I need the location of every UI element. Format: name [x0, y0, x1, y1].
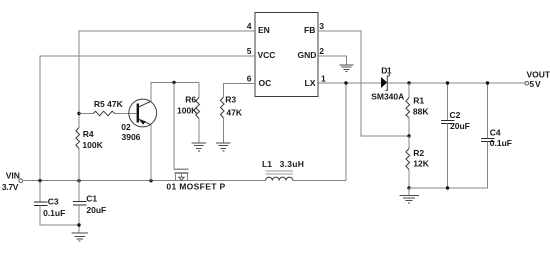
svg-text:12K: 12K	[413, 159, 429, 169]
svg-text:VIN: VIN	[6, 171, 20, 181]
svg-text:R5 47K: R5 47K	[94, 99, 124, 109]
wire LX node down to inductor rail	[345, 83, 347, 181]
wire R2 to ground	[408, 188, 410, 195]
svg-text:R1: R1	[413, 95, 424, 105]
wire Q2 collector up to gate node	[151, 83, 199, 102]
svg-text:20uF: 20uF	[450, 121, 470, 131]
svg-text:20uF: 20uF	[86, 205, 106, 215]
diode D1	[371, 65, 404, 101]
svg-text:R2: R2	[413, 148, 424, 158]
node D1/R1 junction	[407, 81, 410, 84]
node R4/R5/EN junction	[77, 112, 80, 115]
ground GND pin2	[340, 65, 354, 71]
svg-text:SM340A: SM340A	[371, 92, 404, 102]
svg-text:100K: 100K	[82, 140, 103, 150]
svg-text:0.1uF: 0.1uF	[43, 208, 65, 218]
resistor R1	[406, 83, 429, 136]
op-amp U1 regulator IC box	[255, 13, 318, 97]
capacitor C3	[34, 181, 79, 225]
node VIN terminal	[19, 179, 23, 183]
svg-text:3: 3	[319, 21, 324, 31]
svg-text:2: 2	[319, 46, 324, 56]
svg-text:GND: GND	[298, 50, 317, 60]
svg-text:0.1uF: 0.1uF	[490, 138, 512, 148]
svg-text:EN: EN	[258, 25, 270, 35]
svg-text:VCC: VCC	[258, 50, 276, 60]
svg-text:C3: C3	[48, 197, 59, 207]
node C2 top junction	[446, 81, 449, 84]
svg-text:01 MOSFET P: 01 MOSFET P	[166, 181, 225, 191]
svg-text:R6: R6	[185, 95, 196, 105]
svg-text:100K: 100K	[177, 106, 198, 116]
resistor R3	[220, 95, 242, 143]
svg-text:C2: C2	[450, 110, 461, 120]
inductor L1	[262, 159, 304, 180]
wire R2 bottom to C2/C4 bottoms	[409, 187, 488, 189]
svg-text:L1: L1	[262, 159, 272, 169]
node C2 bottom junction	[446, 186, 449, 189]
resistor R4	[76, 114, 104, 182]
svg-text:LX: LX	[305, 78, 316, 88]
svg-text:3.7V: 3.7V	[2, 182, 19, 192]
svg-text:1: 1	[321, 73, 326, 83]
node R1/R2/FB junction	[407, 134, 410, 137]
svg-text:02: 02	[121, 122, 131, 132]
ground R3	[216, 143, 231, 151]
wire VCC pin5 to VIN rail	[40, 56, 255, 181]
capacitor C4	[481, 83, 512, 188]
svg-text:6: 6	[247, 73, 252, 83]
svg-text:C1: C1	[86, 194, 97, 204]
transistor Q2	[121, 99, 156, 142]
svg-text:VOUT: VOUT	[527, 69, 550, 79]
wire OC pin6 to R3 top	[224, 84, 256, 98]
node VCC/C3 junction	[38, 179, 41, 182]
capacitor C2	[441, 83, 470, 188]
svg-text:4: 4	[247, 21, 252, 31]
wire GND pin2 to ground	[318, 56, 347, 65]
ground R6	[192, 143, 207, 151]
node Q2 emitter junction	[149, 179, 152, 182]
wire LX pin1 output rail	[318, 82, 381, 84]
node VOUT terminal	[525, 82, 529, 86]
wire EN pin4 to R4/R5 node	[79, 31, 255, 114]
svg-text:R4: R4	[83, 129, 94, 139]
node gate-drive junction	[172, 81, 175, 84]
svg-text:47K: 47K	[226, 108, 242, 118]
ground R2	[399, 195, 419, 203]
node R2 bottom junction	[407, 186, 410, 189]
wire Q2 emitter down to VIN rail	[150, 125, 152, 181]
wire FB pin3 to R1/R2 node	[318, 31, 409, 136]
svg-text:C4: C4	[490, 127, 501, 137]
svg-text:3906: 3906	[122, 132, 141, 142]
svg-text:88K: 88K	[413, 106, 429, 116]
node R4/C1 junction	[77, 179, 80, 182]
svg-text:5: 5	[247, 46, 252, 56]
resistor R2	[406, 136, 430, 188]
svg-text:5V: 5V	[529, 79, 541, 89]
capacitor C1	[73, 181, 106, 233]
ground C1/C3	[72, 233, 88, 241]
wire gate node down to MOSFET gate	[173, 83, 175, 169]
svg-text:3.3uH: 3.3uH	[280, 159, 305, 169]
svg-text:OC: OC	[259, 78, 272, 88]
node C3/C1 ground junction	[77, 223, 80, 226]
svg-text:FB: FB	[304, 25, 315, 35]
svg-text:R3: R3	[225, 95, 236, 105]
node C4 top junction	[486, 81, 489, 84]
transistor M1 MOSFET P	[166, 169, 225, 191]
resistor R5	[79, 99, 137, 116]
resistor R6	[177, 83, 200, 144]
wire VIN rail	[23, 180, 266, 182]
node LX junction	[344, 81, 347, 84]
svg-text:D1: D1	[381, 65, 392, 75]
